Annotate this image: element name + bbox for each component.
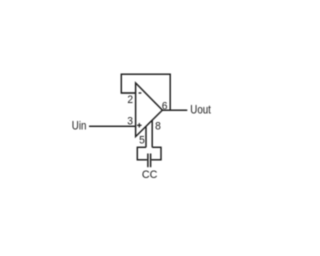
op-amp U1 triangle [136, 83, 163, 137]
svg-text:Uin: Uin [72, 120, 87, 133]
svg-text:8: 8 [155, 120, 161, 133]
capacitor C right plate [150, 154, 152, 168]
capacitor C left plate [147, 154, 149, 168]
wire pin 8 lead [151, 121, 153, 148]
wire pin8 to capacitor right plate [151, 147, 161, 160]
svg-text:2: 2 [127, 94, 133, 107]
svg-text:Uout: Uout [190, 104, 211, 117]
wire pin 5 lead [145, 127, 147, 148]
svg-text:CC: CC [142, 169, 158, 181]
plus sign non-inverting input [137, 124, 142, 126]
wire output pin 6 to Uout [162, 109, 187, 111]
minus sign inverting input [139, 92, 142, 94]
wire input Uin to pin 3 [89, 125, 136, 127]
svg-text:6: 6 [162, 100, 168, 113]
svg-text:3: 3 [127, 115, 133, 128]
svg-text:5: 5 [139, 134, 145, 147]
wire pin5 to capacitor left plate [137, 147, 147, 160]
wire feedback loop pin2 to output [121, 74, 170, 110]
